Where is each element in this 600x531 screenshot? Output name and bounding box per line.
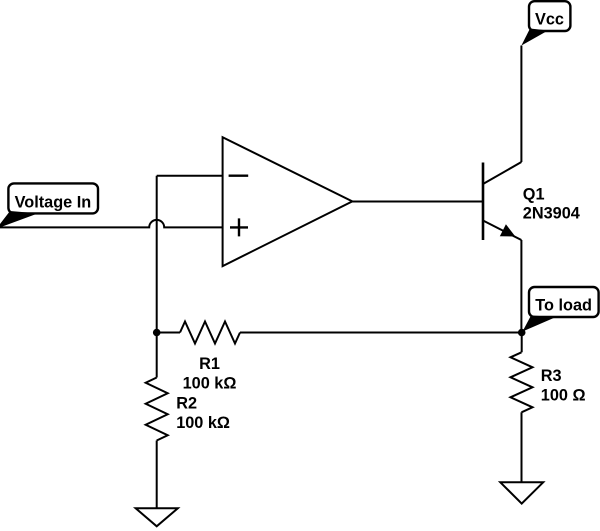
svg-text:100 Ω: 100 Ω [541, 387, 586, 405]
wire R2 to ground [156, 441, 158, 509]
resistor R1 [180, 322, 240, 344]
wire op-amp output to base of Q1 [352, 201, 483, 203]
label Voltage In callout [0, 183, 98, 227]
svg-text:R2: R2 [176, 394, 197, 412]
label Vcc callout [521, 1, 570, 45]
svg-text:To load: To load [535, 297, 592, 315]
ground (left) [136, 508, 178, 526]
transistor Q1 [483, 162, 521, 240]
svg-text:Voltage In: Voltage In [15, 194, 92, 212]
svg-text:Vcc: Vcc [535, 11, 564, 29]
svg-text:R1: R1 [199, 355, 220, 373]
ground (right) [500, 482, 543, 503]
wire feedback vertical from - input down to node A [156, 176, 158, 378]
wire node B to R3 [521, 333, 523, 353]
node B junction dot [518, 329, 526, 337]
svg-text:Q1: Q1 [523, 185, 545, 203]
wire - input horizontal [157, 175, 223, 177]
wire collector to Vcc [520, 46, 522, 163]
svg-text:2N3904: 2N3904 [523, 205, 580, 223]
node A junction dot [153, 329, 161, 337]
svg-text:100 kΩ: 100 kΩ [176, 414, 230, 432]
wire emitter to node B [520, 240, 522, 333]
resistor R3 [511, 352, 533, 412]
svg-text:100 kΩ: 100 kΩ [183, 375, 237, 393]
wire Voltage In to op-amp + input (with hop over feedback wire) [0, 220, 223, 227]
wire R1 to node B [240, 332, 522, 334]
resistor R2 [146, 378, 168, 441]
op-amp U1 [223, 137, 353, 266]
svg-text:R3: R3 [541, 367, 562, 385]
wire R3 to ground [521, 412, 523, 482]
wire node A to R1 [157, 332, 180, 334]
label To load callout [523, 287, 599, 332]
